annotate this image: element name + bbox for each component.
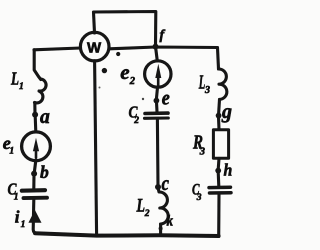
wire node e to C2 [155,102,159,112]
node c [155,184,161,190]
speck [142,98,144,100]
node b [31,171,37,177]
svg-text:i: i [15,208,20,227]
wire L1 to node a [33,103,36,114]
svg-text:e: e [162,88,170,110]
svg-text:b: b [40,162,49,182]
svg-text:2: 2 [133,116,139,126]
node a [32,112,38,118]
wire top loop (W top terminal to node f) [94,12,156,47]
node e [154,98,160,104]
wire top-right horizontal (W to f to corner) [110,47,218,49]
inductor L2 [158,189,168,225]
node k junction [159,227,163,231]
svg-text:c: c [162,173,170,195]
svg-text:h: h [224,161,233,180]
wire node g to R3 [217,117,221,130]
svg-text:L: L [10,68,19,88]
wire node h to C3 [217,172,221,186]
svg-text:1: 1 [19,82,24,92]
capacitor C1 [22,188,45,193]
wire L3 to node g [217,100,221,115]
wire wattmeter voltage lead down [95,61,97,236]
arrow of source e1 [33,138,39,151]
source e1 [34,116,38,132]
current arrow i1 [28,210,41,223]
capacitor C2 [145,111,168,115]
svg-text:k: k [167,214,174,230]
wattmeter polarity dot 1 [116,52,120,56]
node h [215,168,221,174]
svg-text:g: g [221,99,232,123]
svg-text:3: 3 [199,146,205,157]
resistor R3 [213,130,228,158]
svg-text:1: 1 [14,193,19,203]
capacitor C3 [209,185,231,189]
wire C2 down to node c [156,120,160,186]
wattmeter W [80,32,109,61]
wire R3 to node h [217,158,221,169]
wattmeter polarity dot 2 [102,68,107,73]
svg-text:3: 3 [196,193,202,203]
wire C3 to bottom corner [217,195,220,237]
svg-text:2: 2 [129,76,136,87]
svg-text:a: a [40,104,50,128]
wire L2 to bottom [159,224,162,236]
wire right branch top [218,48,219,69]
svg-text:e: e [120,60,129,84]
wire node b to C1 [32,175,35,189]
svg-text:3: 3 [204,85,210,96]
inductor L3 [219,69,227,99]
source e2 [156,48,158,61]
svg-text:1: 1 [9,146,14,156]
svg-text:L: L [136,195,145,216]
wire C1 to bottom corner [33,200,37,234]
wire bottom [35,233,219,236]
svg-text:W: W [87,39,102,56]
inductor L1 [35,79,47,103]
svg-text:2: 2 [144,209,150,219]
speck [99,87,101,89]
wire top-left horizontal [34,48,81,50]
arrow of source e2 [155,64,161,78]
wire left branch upper [34,50,41,80]
node g [216,113,222,119]
svg-text:1: 1 [21,220,26,230]
node f [153,44,159,50]
